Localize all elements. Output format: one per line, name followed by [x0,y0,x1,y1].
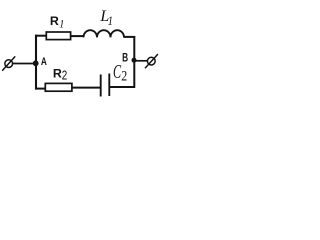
svg-text:1: 1 [108,14,113,28]
svg-text:A: A [41,56,47,69]
svg-text:B: B [122,52,128,65]
svg-text:R: R [53,67,62,81]
svg-text:1: 1 [59,18,64,31]
svg-text:2: 2 [121,67,127,83]
svg-text:2: 2 [62,69,67,82]
svg-text:R: R [50,14,59,28]
